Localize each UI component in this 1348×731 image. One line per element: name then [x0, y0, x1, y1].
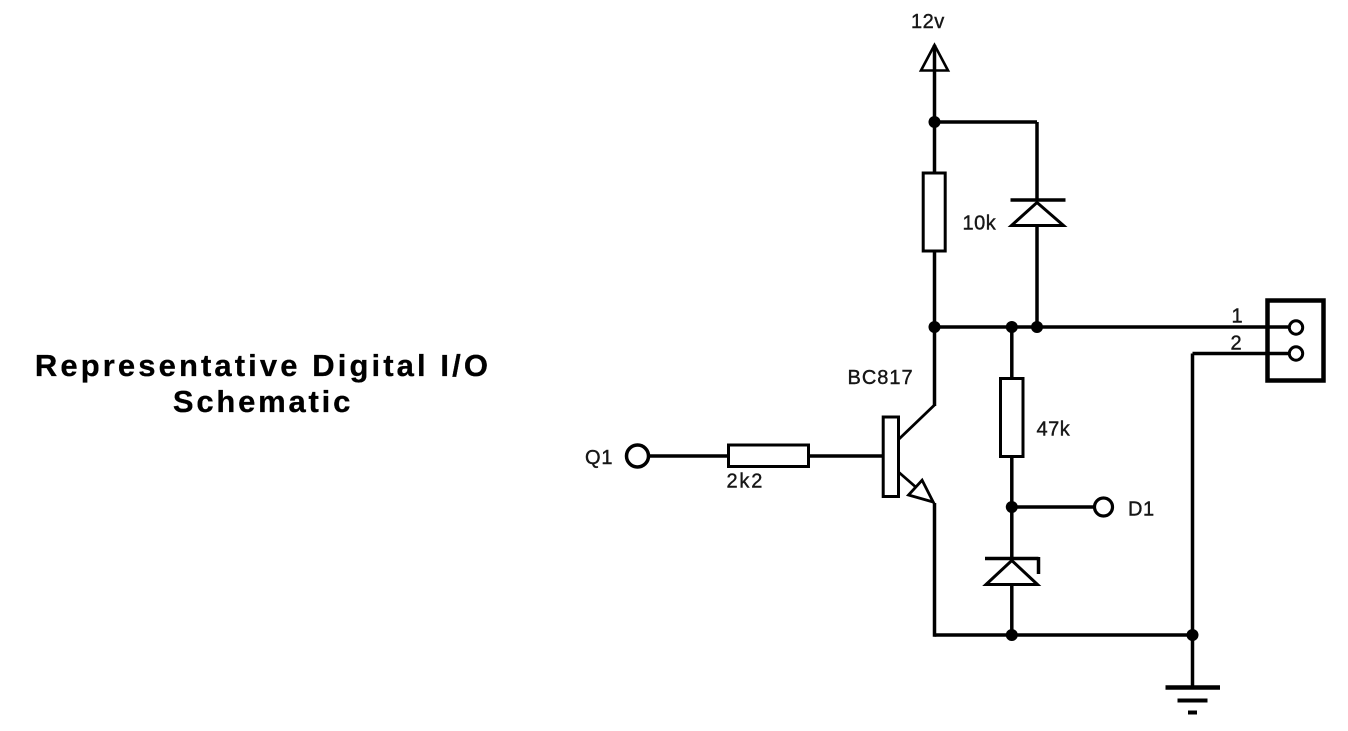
wire collector vertical [933, 327, 937, 406]
wire top rail [935, 120, 1038, 124]
node bottom right junction [1187, 629, 1199, 641]
resistor 47k [1001, 379, 1024, 457]
diode D (flyback) [1011, 200, 1066, 226]
wire zener to ground rail [1010, 585, 1014, 636]
svg-text:12v: 12v [911, 11, 945, 33]
transistor collector lead [899, 405, 936, 440]
node D1 junction [1006, 501, 1018, 513]
wire collector rail [935, 325, 1289, 329]
wire 10k to collector rail [933, 251, 937, 327]
wire diode to rail [1035, 226, 1039, 328]
svg-text:1: 1 [1231, 306, 1242, 328]
svg-text:Schematic: Schematic [173, 384, 353, 419]
node zener bottom junction [1006, 629, 1018, 641]
node collector junction [929, 321, 941, 333]
connector J1 box [1268, 301, 1324, 381]
svg-text:2: 2 [1230, 333, 1241, 355]
wire 2k2 to base [809, 454, 884, 458]
resistor 10k [923, 173, 945, 251]
svg-text:D1: D1 [1128, 499, 1155, 521]
transistor emitter arrow [909, 480, 934, 502]
wire to ground [1191, 635, 1195, 688]
node 47k top junction [1006, 321, 1018, 333]
transistor emitter lead [899, 472, 934, 503]
wire 47k to D1 junction [1010, 457, 1014, 559]
wire bottom rail [935, 633, 1193, 637]
wire pin2 vertical [1191, 354, 1195, 636]
wire top rail to diode [1035, 122, 1039, 200]
terminal D1 [1095, 498, 1113, 516]
resistor 2k2 [729, 445, 809, 467]
wire Q1 to 2k2 [649, 454, 729, 458]
wire emitter vertical [933, 503, 937, 637]
wire rail to 47k [1010, 327, 1014, 379]
svg-text:47k: 47k [1037, 419, 1071, 441]
svg-text:Representative Digital I/O: Representative Digital I/O [35, 348, 491, 383]
wire D1 stub [1012, 505, 1094, 509]
title text [35, 348, 491, 419]
svg-text:10k: 10k [963, 213, 997, 235]
node diode bottom junction [1031, 321, 1043, 333]
node top junction [929, 116, 941, 128]
wire 12v to 10k [933, 122, 937, 174]
svg-text:BC817: BC817 [848, 367, 914, 389]
terminal Q1 [627, 445, 649, 467]
svg-text:2k2: 2k2 [727, 471, 765, 493]
transistor Q BC817 base bar [883, 417, 898, 497]
connector pin 1 circle [1289, 321, 1302, 334]
wire pin2 [1193, 352, 1289, 356]
power symbol 12v arrow [921, 45, 948, 122]
ground [1166, 688, 1221, 713]
svg-text:Q1: Q1 [585, 447, 613, 469]
connector pin 2 circle [1289, 347, 1302, 360]
zener diode Z [985, 557, 1039, 585]
